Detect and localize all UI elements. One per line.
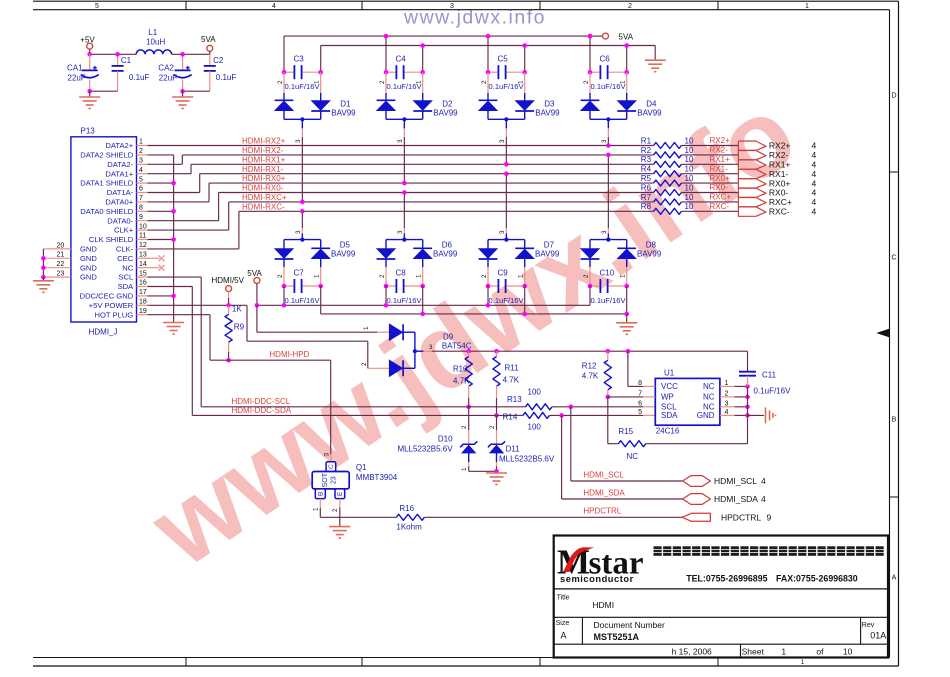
svg-text:D3: D3: [544, 100, 555, 109]
svg-text:C10: C10: [600, 269, 615, 278]
wire D4 common: [590, 118, 627, 120]
svg-text:6: 6: [139, 186, 143, 193]
diode D2 right half (to GND): [422, 72, 424, 93]
node C1 top: [115, 52, 120, 57]
wire pin7 dogleg: [148, 201, 210, 203]
node: [606, 143, 611, 148]
svg-text:100: 100: [528, 422, 542, 431]
node: [171, 294, 176, 299]
svg-text:A: A: [561, 631, 567, 641]
svg-text:HDMI-RX0+: HDMI-RX0+: [242, 174, 286, 183]
diode D9 bottom half: [368, 367, 390, 369]
wire pin19 HOT PLUG: [148, 314, 211, 316]
wire: [496, 466, 498, 471]
wire C5 right lead: [524, 46, 526, 73]
wire D3 common: [488, 118, 525, 120]
diode D1 left half (to 5VA): [283, 72, 285, 93]
svg-text:GND: GND: [80, 273, 97, 282]
svg-text:Document Number: Document Number: [594, 620, 666, 630]
node C6 right: [624, 70, 629, 75]
svg-text:RX0+: RX0+: [710, 174, 731, 183]
svg-text:RX1+: RX1+: [710, 155, 731, 164]
ground: [486, 472, 507, 474]
svg-text:DATA0+: DATA0+: [105, 198, 133, 207]
svg-text:3: 3: [324, 453, 331, 457]
svg-text:D1: D1: [340, 100, 351, 109]
svg-text:C1: C1: [121, 56, 132, 65]
wire row5: [209, 182, 654, 184]
wire pin1 row1: [148, 145, 654, 147]
wire gnd stub: [748, 414, 765, 416]
wire: [209, 51, 211, 54]
diode D7 right half: [524, 240, 526, 250]
wire D1 tap to row: [301, 119, 303, 128]
wire: [681, 145, 738, 147]
svg-text:DATA2-: DATA2-: [107, 160, 133, 169]
pin 12 CLK-: [137, 248, 148, 250]
svg-text:RX1-: RX1-: [710, 164, 729, 173]
wire row4: [200, 173, 654, 175]
resistor R6 10: [654, 190, 682, 196]
svg-text:D2: D2: [442, 100, 453, 109]
svg-text:2: 2: [379, 80, 386, 84]
svg-text:D8: D8: [646, 241, 657, 250]
svg-text:2: 2: [481, 274, 488, 278]
wire shield ground bus: [148, 154, 174, 156]
svg-text:4: 4: [272, 3, 276, 10]
connector P13 body: [71, 137, 137, 322]
resistor R10 4.7K: [466, 349, 471, 354]
svg-text:RXC-: RXC-: [769, 207, 790, 217]
svg-text:+5V POWER: +5V POWER: [89, 301, 134, 310]
pin 8 DATA0 SHIELD: [137, 210, 148, 212]
diode D3 right half (to GND): [524, 72, 526, 93]
svg-text:HDMI-RX1-: HDMI-RX1-: [242, 165, 284, 174]
node: [402, 190, 407, 195]
capacitor CA2: [182, 54, 184, 70]
svg-text:GND: GND: [80, 254, 97, 263]
wire D8 common: [590, 239, 627, 241]
capacitor C1: [117, 54, 119, 66]
svg-text:6: 6: [638, 400, 642, 407]
wire: [424, 516, 682, 518]
wire pin10 dogleg: [148, 229, 229, 231]
svg-text:HDMI-RX0-: HDMI-RX0-: [242, 184, 284, 193]
svg-text:FAX:0755-26996830: FAX:0755-26996830: [776, 573, 858, 583]
node C5 right: [522, 70, 527, 75]
node R10/SCL: [466, 405, 471, 410]
svg-text:2: 2: [583, 274, 590, 278]
svg-text:1: 1: [620, 80, 627, 84]
node pin23: [41, 275, 46, 280]
wire pin6 dogleg: [148, 192, 200, 194]
diode D5 right half: [320, 240, 322, 250]
port flag RX2-: [738, 150, 766, 160]
wire: [468, 466, 470, 471]
node: [384, 303, 389, 308]
port flag HDMI_SCL: [683, 476, 711, 487]
node CA2 bottom: [180, 89, 185, 94]
node: [171, 181, 176, 186]
svg-text:U1: U1: [664, 369, 675, 378]
pin 21 GND: [43, 257, 71, 259]
diode D7 left half: [487, 240, 489, 249]
svg-text:1: 1: [416, 274, 423, 278]
wire C10 right lead to gnd rail: [626, 286, 628, 314]
svg-text:1: 1: [805, 3, 809, 10]
pin 19 HOT PLUG: [137, 314, 148, 316]
node pin22: [41, 265, 46, 270]
node C3 right: [318, 70, 323, 75]
svg-text:15: 15: [139, 270, 147, 277]
wire: [89, 49, 91, 54]
node: [300, 200, 305, 205]
wire pin11 to gnd bus: [148, 239, 174, 241]
no-connect X pin13: [159, 255, 165, 261]
svg-text:HDMI/5V: HDMI/5V: [212, 276, 245, 285]
svg-text:R11: R11: [505, 363, 520, 372]
sheet center marker arrow: [877, 329, 889, 337]
svg-text:D10: D10: [438, 435, 453, 444]
svg-text:HDMI-RXC-: HDMI-RXC-: [242, 202, 285, 211]
wire HDMI-HPD: [229, 359, 331, 361]
node pin21: [41, 256, 46, 261]
svg-text:CLK SHIELD: CLK SHIELD: [89, 235, 134, 244]
zener D11 MLL5232B5.6V: [496, 415, 498, 430]
svg-text:of: of: [816, 647, 824, 657]
svg-text:13: 13: [139, 252, 147, 259]
svg-text:A: A: [892, 575, 897, 582]
svg-text:DATA2 SHIELD: DATA2 SHIELD: [80, 151, 133, 160]
transistor Q1 MMBT3904 SOT-23: [326, 462, 336, 472]
svg-text:RXC-: RXC-: [710, 202, 730, 211]
svg-text:Q1: Q1: [356, 463, 367, 472]
svg-text:3: 3: [397, 139, 404, 143]
svg-text:R7: R7: [641, 193, 652, 202]
svg-text:10: 10: [843, 647, 853, 657]
svg-text:2: 2: [139, 148, 143, 155]
capacitor C5: [488, 71, 497, 73]
svg-text:19: 19: [139, 308, 147, 315]
wire base: [319, 499, 321, 508]
svg-text:3: 3: [601, 230, 608, 234]
diode D6 right half: [422, 240, 424, 250]
wire row8: [239, 210, 654, 212]
node +5V junction: [87, 52, 92, 57]
svg-text:C11: C11: [762, 370, 777, 379]
svg-text:CEC: CEC: [117, 254, 134, 263]
svg-text:HDMI-RX2+: HDMI-RX2+: [242, 137, 286, 146]
svg-text:11: 11: [139, 233, 146, 240]
wire C3 left lead: [283, 36, 285, 72]
wire pin3 dogleg: [148, 163, 183, 165]
svg-text:DAT1A-: DAT1A-: [107, 188, 134, 197]
svg-text:17: 17: [139, 289, 147, 296]
svg-text:R5: R5: [641, 174, 652, 183]
svg-text:C9: C9: [498, 269, 509, 278]
svg-text:2: 2: [461, 425, 468, 429]
node: [300, 209, 305, 214]
wire D3 tap to row: [505, 119, 507, 128]
wire D7 tap from row: [505, 174, 507, 228]
svg-text:HPDCTRL: HPDCTRL: [583, 507, 621, 516]
wire: [228, 292, 230, 298]
svg-text:2: 2: [379, 274, 386, 278]
node R12/WP: [606, 395, 611, 400]
svg-text:23: 23: [330, 476, 337, 484]
port flag RX1+: [738, 160, 766, 170]
svg-text:3: 3: [601, 139, 608, 143]
node C4 left: [384, 70, 389, 75]
node C5 left: [486, 70, 491, 75]
pin 17 DDC/CEC GND: [137, 295, 148, 297]
resistor R9 1K: [228, 305, 230, 314]
svg-text:R10: R10: [453, 365, 468, 374]
wire D5 common: [284, 239, 321, 241]
port flag RX0-: [738, 188, 766, 198]
svg-text:CLK-: CLK-: [116, 245, 134, 254]
wire C10 left lead to 5VA rail: [589, 286, 591, 305]
ground: [182, 91, 184, 97]
capacitor C6: [590, 71, 599, 73]
diode D4 left half (to 5VA): [589, 72, 591, 93]
svg-text:0.1uF/16V: 0.1uF/16V: [591, 296, 627, 305]
svg-text:23: 23: [57, 271, 65, 278]
wire: [172, 53, 210, 55]
resistor R1 10: [654, 143, 682, 149]
wire C5 left lead: [487, 36, 489, 72]
svg-text:R2: R2: [641, 146, 652, 155]
node D9 common: [413, 349, 417, 353]
wire 5VA top bus: [284, 35, 590, 37]
pin 9 DATA0-: [137, 220, 148, 222]
svg-text:D9: D9: [443, 332, 454, 341]
svg-text:4: 4: [761, 494, 766, 504]
wire: [681, 182, 738, 184]
capacitor CA1: [89, 54, 91, 70]
resistor R15 NC: [607, 397, 609, 444]
node: [504, 162, 509, 167]
svg-text:NC: NC: [703, 382, 715, 391]
pin 18 +5V POWER: [137, 304, 148, 306]
svg-text:DATA1+: DATA1+: [105, 169, 133, 178]
wire SDA flag drop: [561, 415, 563, 499]
svg-text:5VA: 5VA: [247, 269, 262, 278]
svg-text:RX2-: RX2-: [710, 146, 729, 155]
ground: [42, 277, 44, 281]
svg-text:RXC+: RXC+: [710, 193, 732, 202]
wire pin17 to gnd bus: [148, 295, 174, 297]
svg-text:4: 4: [812, 207, 817, 217]
svg-text:10: 10: [685, 136, 694, 145]
wire C9 right lead to gnd rail: [524, 286, 526, 314]
svg-text:5: 5: [139, 176, 143, 183]
wire: [552, 406, 643, 408]
svg-text:24C16: 24C16: [656, 427, 680, 436]
svg-text:9: 9: [139, 214, 143, 221]
svg-text:C3: C3: [294, 55, 305, 64]
svg-text:D6: D6: [442, 241, 453, 250]
wire D2 tap to row: [403, 119, 405, 128]
wire C3 right lead: [320, 46, 322, 73]
svg-text:L1: L1: [148, 28, 157, 37]
wire C7 right lead to gnd rail: [320, 286, 322, 314]
svg-text:B: B: [892, 417, 897, 424]
diode D6 left half: [385, 240, 387, 249]
pin 14 NC: [137, 267, 148, 269]
wire: [681, 210, 738, 212]
svg-text:BAV99: BAV99: [535, 108, 560, 117]
svg-text:3: 3: [450, 3, 454, 10]
svg-text:12: 12: [139, 242, 147, 249]
resistor R2 10: [654, 152, 682, 158]
svg-text:D: D: [891, 93, 896, 100]
svg-text:NC: NC: [627, 452, 639, 461]
inductor L1: [136, 50, 171, 54]
capacitor C4: [386, 71, 395, 73]
node C7 left: [282, 284, 287, 289]
wire gnd top bus: [321, 45, 656, 47]
pin 7 DATA0+: [137, 201, 148, 203]
svg-text:22uF: 22uF: [159, 73, 177, 82]
node C4 right: [420, 70, 425, 75]
svg-text:1: 1: [314, 274, 321, 278]
wire C4 right lead: [422, 46, 424, 73]
svg-text:22uF: 22uF: [68, 73, 86, 82]
pin 13 CEC: [137, 257, 148, 259]
svg-text:2: 2: [489, 425, 496, 429]
svg-text:MLL5232B5.6V: MLL5232B5.6V: [499, 455, 555, 464]
svg-text:E: E: [337, 491, 344, 496]
svg-text:16: 16: [139, 280, 147, 287]
wire HPDCTRL line: [320, 516, 396, 518]
svg-text:14: 14: [139, 261, 147, 268]
pin 23 GND: [43, 276, 71, 278]
wire pin12 dogleg: [148, 248, 239, 250]
svg-text:+5V: +5V: [80, 35, 95, 44]
wire: [681, 192, 738, 194]
wire C6 right lead: [626, 46, 628, 73]
wire D2 common: [386, 118, 423, 120]
node: [486, 303, 491, 308]
svg-text:HDMI-HPD: HDMI-HPD: [269, 350, 309, 359]
svg-text:RX0-: RX0-: [710, 183, 729, 192]
svg-text:DATA2+: DATA2+: [105, 141, 133, 150]
svg-text:3: 3: [295, 139, 302, 143]
svg-text:2: 2: [628, 3, 632, 10]
wire D6 tap from row: [403, 193, 405, 229]
svg-text:D4: D4: [646, 100, 657, 109]
svg-text:3: 3: [429, 344, 433, 351]
pin 11 CLK SHIELD: [137, 239, 148, 241]
wire: [183, 90, 210, 92]
node: [226, 303, 231, 308]
capacitor C10: [590, 285, 599, 287]
svg-text:1: 1: [139, 139, 143, 146]
svg-text:BAV99: BAV99: [433, 250, 458, 259]
port flag RX0+: [738, 179, 766, 189]
node C8 right: [420, 284, 425, 289]
svg-text:R1: R1: [641, 136, 652, 145]
svg-text:1Kohm: 1Kohm: [396, 523, 422, 532]
wire row2: [182, 154, 653, 156]
svg-text:3: 3: [499, 139, 506, 143]
svg-text:C: C: [328, 464, 335, 469]
svg-text:MLL5232B5.6V: MLL5232B5.6V: [397, 444, 453, 453]
svg-text:10: 10: [685, 174, 694, 183]
svg-text:TEL:0755-26996895: TEL:0755-26996895: [686, 573, 767, 583]
wire pin16 SDA: [148, 286, 193, 288]
wire SCL line: [201, 406, 525, 408]
svg-text:3: 3: [397, 230, 404, 234]
svg-text:C5: C5: [498, 55, 509, 64]
svg-text:R15: R15: [618, 427, 633, 436]
svg-text:D5: D5: [340, 241, 351, 250]
port flag HPDCTRL: [682, 513, 710, 521]
svg-text:h 15, 2006: h 15, 2006: [672, 647, 712, 657]
svg-text:R6: R6: [641, 183, 652, 192]
svg-text:1: 1: [363, 326, 370, 330]
svg-text:BAV99: BAV99: [637, 108, 662, 117]
svg-text:01A: 01A: [870, 631, 886, 641]
svg-text:C7: C7: [294, 269, 305, 278]
svg-text:BAT54C: BAT54C: [442, 342, 472, 351]
node C10 right: [624, 284, 629, 289]
svg-text:10: 10: [685, 193, 694, 202]
wire C7 left lead to 5VA rail: [283, 286, 285, 305]
svg-text:NC: NC: [122, 263, 133, 272]
svg-text:18: 18: [139, 299, 147, 306]
node CA2 top: [180, 52, 185, 57]
svg-text:BAV99: BAV99: [535, 250, 560, 259]
resistor R16 1Kohm: [396, 514, 424, 520]
svg-text:R4: R4: [641, 165, 652, 174]
svg-text:10: 10: [685, 155, 694, 164]
capacitor C2: [209, 54, 211, 66]
diode D8 left half: [589, 240, 591, 249]
node C10 left: [588, 284, 593, 289]
svg-text:GND: GND: [80, 245, 97, 254]
pin 10 CLK+: [137, 229, 148, 231]
ic U1 24C16 body: [655, 378, 720, 425]
svg-text:4.7K: 4.7K: [582, 372, 599, 381]
svg-text:HDMI_SDA: HDMI_SDA: [714, 494, 758, 504]
node: [171, 237, 176, 242]
svg-text:3: 3: [139, 158, 143, 165]
svg-text:2: 2: [361, 362, 368, 366]
svg-text:BAV99: BAV99: [331, 250, 356, 259]
svg-text:0.1uF/16V: 0.1uF/16V: [754, 386, 792, 395]
pin 15 SCL: [137, 276, 148, 278]
svg-text:RX2+: RX2+: [710, 136, 731, 145]
node C3 left: [282, 70, 287, 75]
svg-text:4: 4: [761, 476, 766, 486]
svg-text:10: 10: [139, 223, 147, 230]
power port +5V: [87, 43, 93, 49]
svg-text:R13: R13: [507, 395, 522, 404]
wire pin15 SCL: [148, 276, 202, 278]
svg-text:1: 1: [518, 80, 525, 84]
svg-text:SDA: SDA: [661, 411, 678, 420]
svg-text:5VA: 5VA: [201, 35, 216, 44]
resistor R11 4.7K: [494, 349, 499, 354]
svg-text:10: 10: [685, 183, 694, 192]
node C9 right: [522, 284, 527, 289]
svg-text:C6: C6: [600, 55, 611, 64]
svg-text:2: 2: [277, 274, 284, 278]
svg-text:B: B: [317, 492, 324, 496]
svg-text:22: 22: [57, 261, 65, 268]
